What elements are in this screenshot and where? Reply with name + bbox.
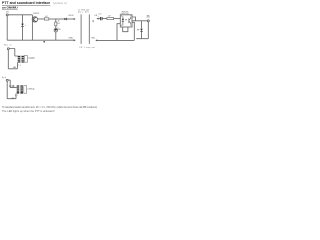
svg-text:4k7: 4k7: [45, 16, 48, 18]
svg-text:GND: GND: [91, 37, 96, 39]
svg-text:1N4148: 1N4148: [68, 15, 73, 17]
svg-text:to TRX spk: to TRX spk: [27, 88, 34, 91]
svg-text:1:1: 1:1: [18, 65, 21, 67]
svg-text:LED: LED: [58, 29, 62, 31]
svg-text:GND: GND: [69, 37, 74, 39]
svg-text:(optocoup): (optocoup): [121, 12, 130, 15]
svg-text:To standard audio transformers: To standard audio transformers, Ztr = 1:…: [2, 105, 97, 109]
svg-text:4k7: 4k7: [108, 16, 111, 18]
svg-text:an ON6MU: an ON6MU: [2, 5, 18, 9]
svg-text:PTT: PTT: [147, 17, 150, 19]
svg-text:Aux Mic: Aux Mic: [78, 11, 89, 14]
svg-text:(version 2): (version 2): [53, 1, 67, 5]
svg-text:Spk: Spk: [2, 77, 6, 79]
svg-text:The LED lights up when the PTT: The LED lights up when the PTT is activa…: [2, 109, 55, 113]
svg-text:1:1: 1:1: [15, 95, 18, 97]
svg-text:12V: 12V: [6, 12, 10, 14]
svg-text:TRX: TRX: [147, 16, 150, 18]
svg-text:z: z: [25, 25, 26, 27]
svg-text:Mic in: Mic in: [4, 44, 11, 46]
svg-text:1k5: 1k5: [57, 23, 60, 25]
svg-text:to soundcard: to soundcard: [29, 56, 35, 59]
svg-text:+: +: [98, 16, 100, 18]
svg-text:PN2222: PN2222: [33, 13, 39, 15]
svg-text:10uF: 10uF: [98, 13, 102, 15]
svg-text:OR 1 amp out: OR 1 amp out: [79, 46, 95, 49]
